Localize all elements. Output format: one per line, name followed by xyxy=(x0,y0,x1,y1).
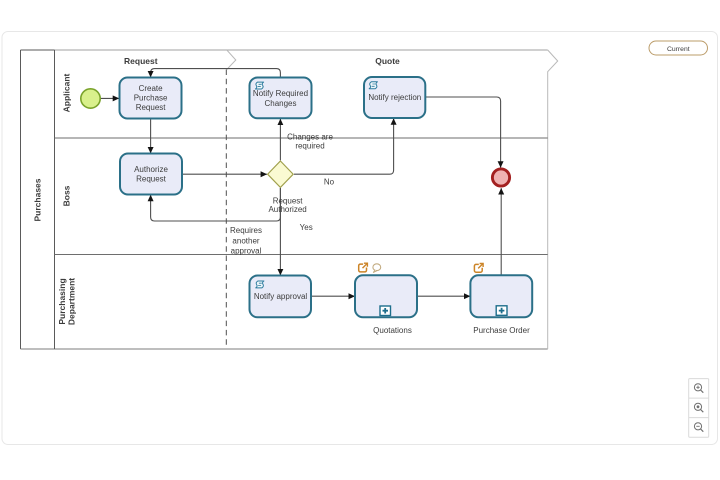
wire: flow Create Purchase Request to Authorize Request xyxy=(150,119,152,153)
svg-text:Request: Request xyxy=(124,56,158,66)
pool Purchases outline xyxy=(21,50,548,349)
svg-text:Notify approval: Notify approval xyxy=(254,292,308,301)
zoom out button xyxy=(694,423,703,432)
wire: flow Purchase Order to end event xyxy=(500,188,502,275)
milestone dashed separator xyxy=(225,70,227,349)
svg-text:No: No xyxy=(324,177,335,186)
task Notify rejection xyxy=(364,77,425,118)
gateway Request Authorized xyxy=(268,161,294,187)
wire: flow gateway Yes to Notify approval xyxy=(279,188,281,275)
wire: flow Notify Required Changes to Create Purchase Request xyxy=(151,69,281,78)
svg-text:PurchasingDepartment: PurchasingDepartment xyxy=(57,278,77,325)
zoom button stack xyxy=(689,379,709,438)
wire: flow Notify approval to Quotations xyxy=(311,295,355,297)
task Create Purchase Request xyxy=(120,78,182,119)
wire: flow gateway loop to Authorize Request (Requires another approval) xyxy=(151,188,281,221)
svg-text:Notify rejection: Notify rejection xyxy=(368,93,421,102)
wire: flow Notify rejection to end event xyxy=(426,97,501,168)
svg-text:Requiresanotherapproval: Requiresanotherapproval xyxy=(230,226,262,255)
svg-text:RequestAuthorized: RequestAuthorized xyxy=(268,196,306,214)
task Notify approval xyxy=(250,276,312,318)
task Notify Required Changes xyxy=(250,78,312,119)
task Authorize Request xyxy=(120,154,182,195)
svg-text:Purchases: Purchases xyxy=(32,178,42,221)
wire: flow start to Create Purchase Request xyxy=(100,97,119,99)
lane divider Applicant/Boss xyxy=(55,137,548,139)
svg-text:Yes: Yes xyxy=(300,223,313,232)
svg-text:Applicant: Applicant xyxy=(62,73,72,112)
svg-text:Current: Current xyxy=(667,46,690,53)
svg-text:Quote: Quote xyxy=(375,56,400,66)
pool right edge with milestone chevron xyxy=(548,50,558,349)
subprocess Quotations xyxy=(355,263,417,335)
milestone chevron separator xyxy=(227,50,236,70)
wire: flow Quotations to Purchase Order xyxy=(417,295,470,297)
wire: flow gateway No to Notify rejection xyxy=(294,119,394,175)
Current button xyxy=(649,41,708,55)
svg-text:AuthorizeRequest: AuthorizeRequest xyxy=(134,165,168,184)
svg-text:Purchase Order: Purchase Order xyxy=(473,326,530,335)
wire: flow gateway to Notify Required Changes (Changes are required) xyxy=(279,119,281,160)
lane divider Boss/Purchasing xyxy=(55,254,548,256)
subprocess Purchase Order xyxy=(470,264,532,336)
comment bubble icon xyxy=(373,264,381,273)
zoom in button xyxy=(694,384,703,393)
start event xyxy=(81,89,100,108)
svg-text:Quotations: Quotations xyxy=(373,326,412,335)
end event xyxy=(492,169,509,186)
svg-text:Boss: Boss xyxy=(62,185,72,206)
wire: flow Authorize Request to gateway xyxy=(182,173,267,175)
zoom fit button xyxy=(694,403,703,412)
